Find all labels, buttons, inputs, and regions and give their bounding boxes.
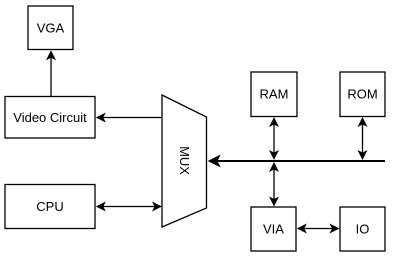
svg-text:ROM: ROM bbox=[347, 87, 377, 102]
wire VIA to IO (double arrow) bbox=[297, 224, 340, 234]
svg-text:VIA: VIA bbox=[263, 222, 284, 237]
svg-text:IO: IO bbox=[356, 222, 370, 237]
wire ROM to bus (double arrow) bbox=[358, 117, 368, 160]
svg-text:VGA: VGA bbox=[37, 21, 65, 36]
wire Video Circuit to VGA (arrow up) bbox=[46, 50, 56, 96]
svg-text:RAM: RAM bbox=[260, 87, 289, 102]
bus (thick line, arrow into MUX) bbox=[208, 155, 385, 168]
block VIA bbox=[251, 207, 296, 251]
block RAM bbox=[251, 72, 297, 117]
multiplexer MUX bbox=[162, 95, 207, 227]
block VGA bbox=[28, 6, 73, 50]
svg-text:MUX: MUX bbox=[177, 146, 192, 175]
block Video Circuit bbox=[5, 97, 95, 139]
wire bus to VIA (double arrow) bbox=[269, 162, 279, 207]
block ROM bbox=[340, 72, 385, 117]
wire CPU to MUX (double arrow) bbox=[96, 202, 162, 212]
svg-text:CPU: CPU bbox=[36, 199, 63, 214]
block CPU bbox=[5, 185, 95, 229]
svg-text:Video Circuit: Video Circuit bbox=[13, 110, 87, 125]
wire MUX to Video Circuit (arrow left) bbox=[96, 113, 163, 123]
wire RAM to bus (double arrow) bbox=[269, 117, 279, 160]
block IO bbox=[340, 207, 385, 251]
